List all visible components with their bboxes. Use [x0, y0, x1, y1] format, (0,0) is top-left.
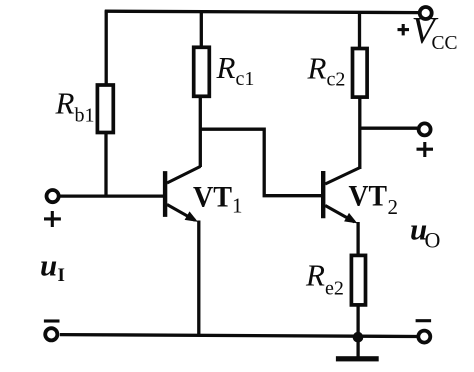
svg-text:R: R	[55, 86, 75, 121]
svg-text:VT: VT	[193, 180, 232, 213]
svg-text:1: 1	[232, 193, 243, 217]
svg-text:CC: CC	[432, 33, 458, 54]
svg-text:I: I	[58, 265, 65, 286]
svg-text:R: R	[307, 51, 327, 86]
svg-text:R: R	[216, 50, 236, 85]
svg-text:e2: e2	[325, 278, 344, 300]
svg-text:c2: c2	[327, 68, 346, 90]
svg-text:O: O	[425, 227, 441, 252]
svg-text:b1: b1	[75, 105, 95, 127]
svg-text:R: R	[305, 258, 325, 293]
svg-text:u: u	[40, 248, 57, 283]
svg-text:VT: VT	[349, 180, 388, 213]
svg-text:c1: c1	[236, 68, 255, 90]
svg-text:2: 2	[388, 195, 399, 219]
